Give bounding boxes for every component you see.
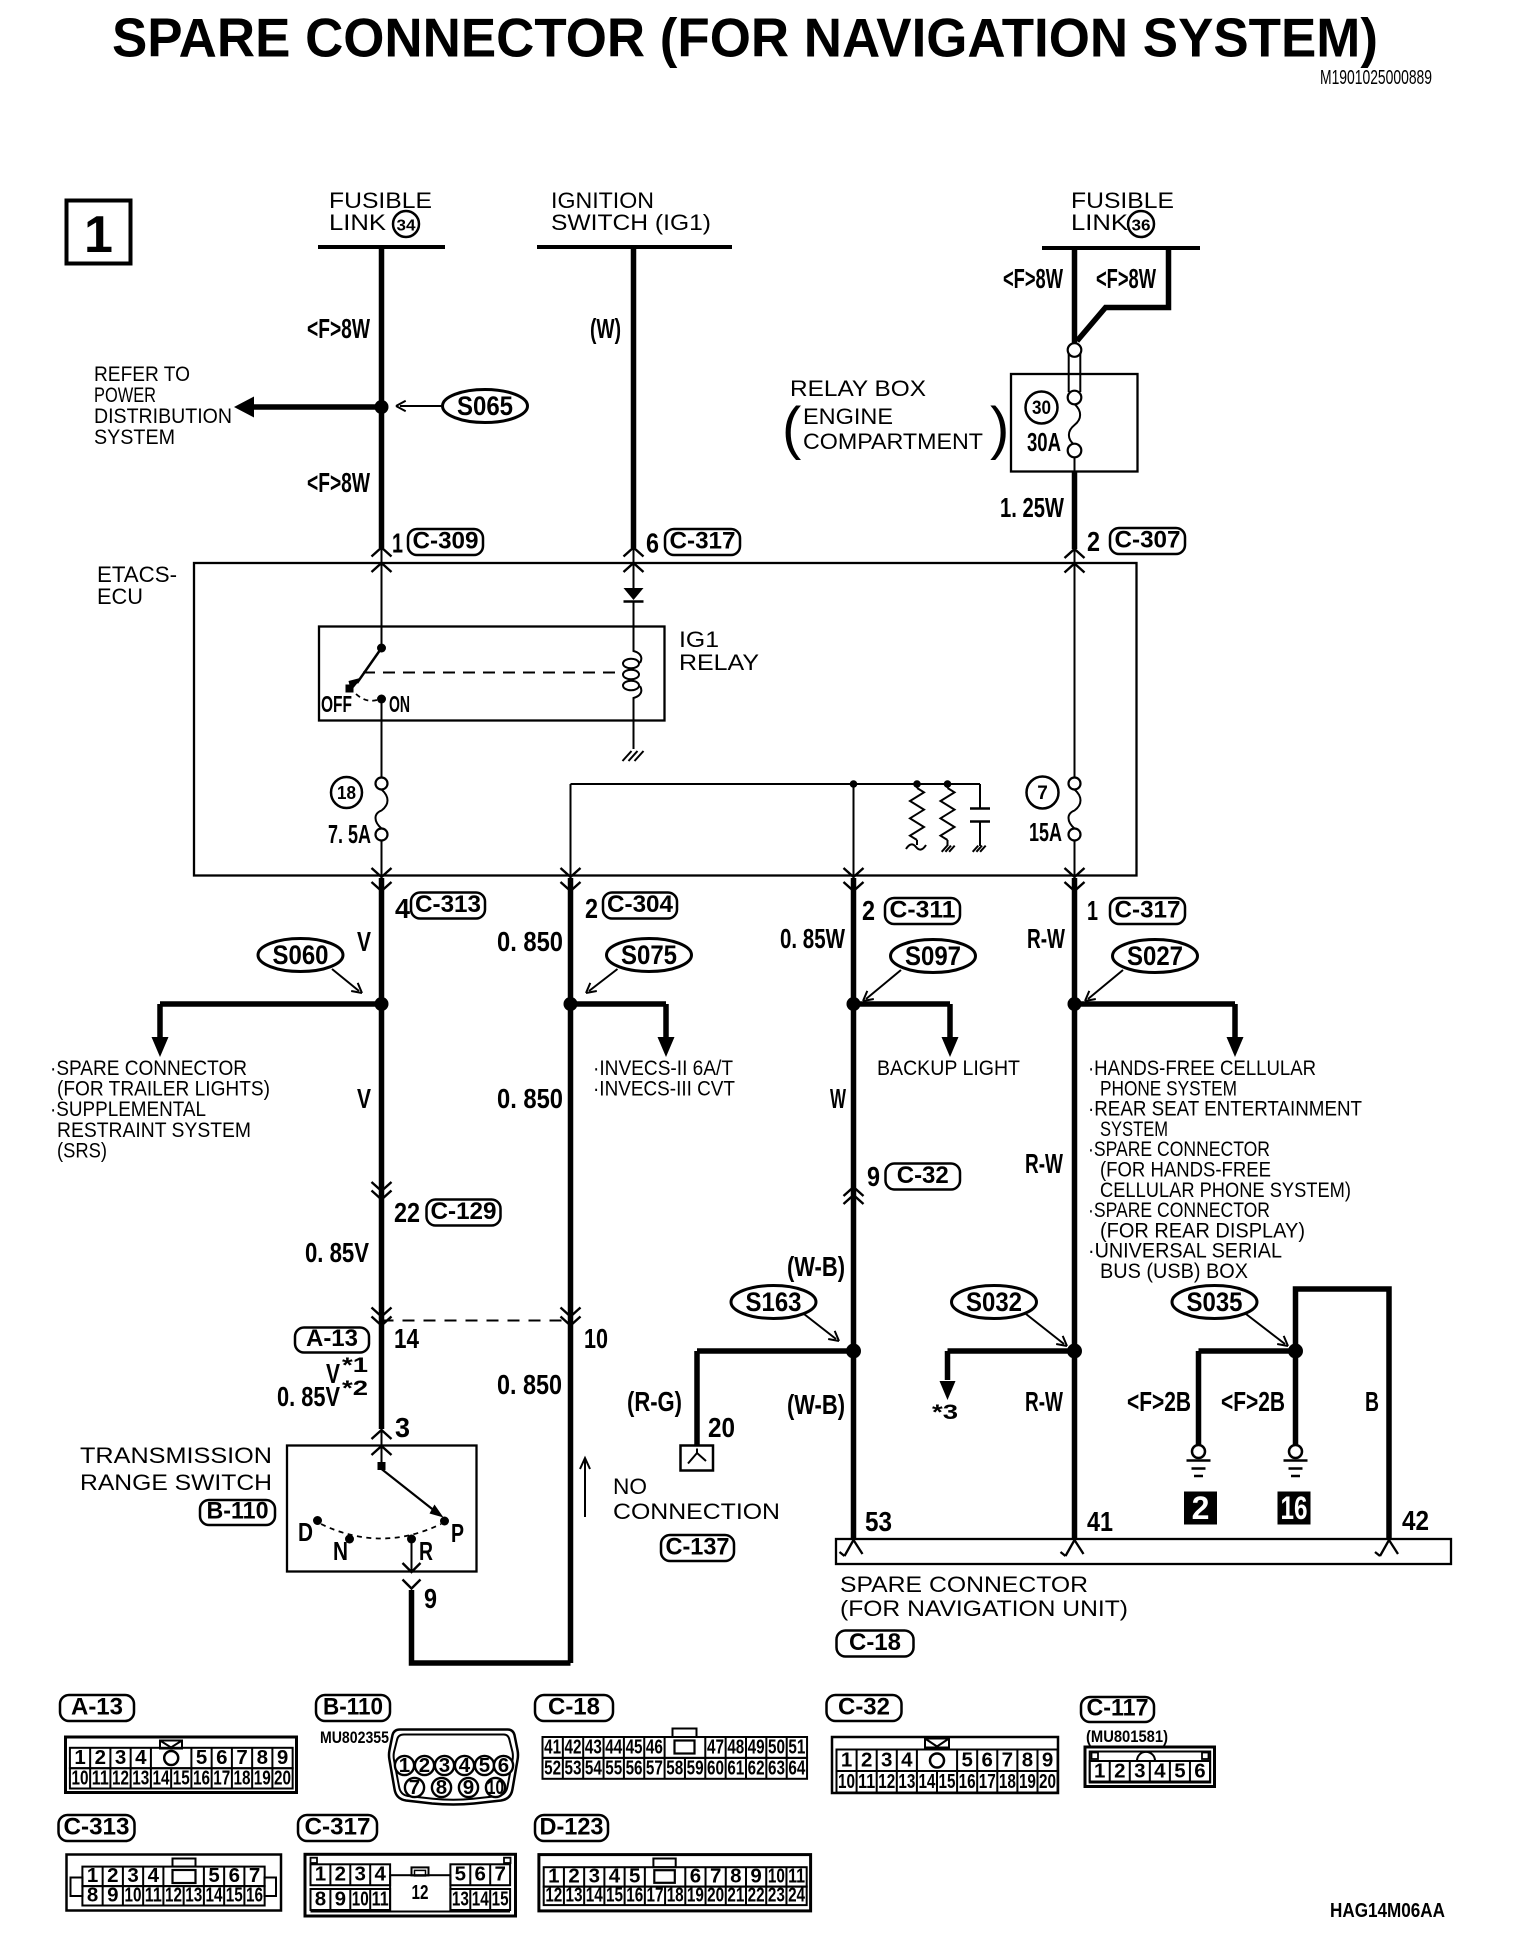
svg-text:BUS (USB) BOX: BUS (USB) BOX xyxy=(1100,1260,1248,1283)
svg-text:41: 41 xyxy=(544,1736,561,1759)
svg-text:R-W: R-W xyxy=(1027,923,1065,954)
resistor 2 xyxy=(944,780,952,788)
svg-text:RELAY: RELAY xyxy=(679,650,759,675)
svg-text:48: 48 xyxy=(727,1736,744,1759)
svg-text:B-110: B-110 xyxy=(207,1498,269,1525)
figure number 1 box xyxy=(67,201,131,264)
svg-text:14: 14 xyxy=(472,1888,489,1911)
up arrow xyxy=(584,1460,586,1517)
svg-text:12: 12 xyxy=(165,1884,182,1907)
svg-text:RANGE SWITCH: RANGE SWITCH xyxy=(80,1470,272,1495)
svg-text:49: 49 xyxy=(748,1736,765,1759)
connector A-13 pinout xyxy=(60,1695,134,1721)
svg-text:60: 60 xyxy=(707,1757,724,1780)
ignition switch bus bar xyxy=(537,245,732,249)
svg-text:9: 9 xyxy=(107,1884,118,1907)
svg-text:D-123: D-123 xyxy=(540,1814,604,1841)
svg-text:18: 18 xyxy=(234,1767,251,1790)
fuse 18 7.5A xyxy=(376,778,388,790)
svg-text:1. 25W: 1. 25W xyxy=(1000,492,1064,523)
svg-text:13: 13 xyxy=(185,1884,202,1907)
svg-text:D: D xyxy=(298,1517,313,1547)
svg-text:53: 53 xyxy=(565,1757,582,1780)
connector C-313 pinout xyxy=(59,1815,135,1841)
svg-text:30: 30 xyxy=(1032,398,1051,419)
svg-text:12: 12 xyxy=(545,1884,562,1907)
wire R-W down to S032 xyxy=(1072,1004,1078,1351)
svg-text:·SUPPLEMENTAL: ·SUPPLEMENTAL xyxy=(50,1098,206,1121)
relay coil ground xyxy=(623,751,632,761)
svg-text:C-18: C-18 xyxy=(849,1629,901,1656)
svg-text:5: 5 xyxy=(479,1754,490,1777)
svg-text:23: 23 xyxy=(768,1884,785,1907)
connector A-13 crossing xyxy=(372,1308,392,1317)
svg-text:14: 14 xyxy=(394,1323,419,1354)
fusible link 36 bus bar xyxy=(1042,246,1200,250)
svg-text:S075: S075 xyxy=(621,940,677,970)
fuse 30 30A xyxy=(1069,404,1080,445)
svg-text:B: B xyxy=(1365,1386,1379,1417)
svg-text:14: 14 xyxy=(206,1884,223,1907)
svg-text:47: 47 xyxy=(707,1736,724,1759)
svg-text:10: 10 xyxy=(72,1767,89,1790)
svg-text:45: 45 xyxy=(626,1736,643,1759)
splice S027 xyxy=(1113,940,1198,973)
wire IG1 to ETACS pin6 xyxy=(631,247,637,548)
svg-text:V: V xyxy=(357,926,371,957)
svg-text:C-32: C-32 xyxy=(838,1694,890,1721)
svg-text:9: 9 xyxy=(463,1776,474,1799)
svg-text:B-110: B-110 xyxy=(323,1694,383,1721)
ground number 16 xyxy=(1278,1492,1311,1525)
svg-text:1: 1 xyxy=(841,1749,852,1772)
svg-text:C-313: C-313 xyxy=(64,1814,130,1841)
svg-text:A-13: A-13 xyxy=(71,1694,123,1721)
svg-text:6: 6 xyxy=(646,528,659,559)
wire FL34 to ETACS pin1 xyxy=(379,247,385,548)
svg-text:6: 6 xyxy=(982,1749,993,1772)
svg-text:LINK: LINK xyxy=(1071,210,1128,235)
svg-text:V: V xyxy=(357,1083,371,1114)
svg-text:30A: 30A xyxy=(1027,427,1061,457)
svg-text:S065: S065 xyxy=(457,391,513,421)
svg-text:*2: *2 xyxy=(342,1377,368,1400)
svg-text:42: 42 xyxy=(1402,1505,1429,1536)
internal bus line xyxy=(571,783,981,785)
svg-text:14: 14 xyxy=(586,1884,603,1907)
arrow to power distribution system xyxy=(248,404,382,410)
svg-text:1: 1 xyxy=(392,528,403,559)
svg-text:4: 4 xyxy=(459,1754,471,1777)
svg-text:(SRS): (SRS) xyxy=(57,1139,107,1162)
svg-text:C-32: C-32 xyxy=(897,1162,949,1189)
diode xyxy=(624,588,644,600)
svg-text:10: 10 xyxy=(584,1323,608,1354)
svg-text:SPARE CONNECTOR (FOR NAVIGATIO: SPARE CONNECTOR (FOR NAVIGATION SYSTEM) xyxy=(112,7,1378,69)
svg-text:(W): (W) xyxy=(590,313,621,344)
svg-text:64: 64 xyxy=(788,1757,805,1780)
svg-text:C-129: C-129 xyxy=(431,1198,497,1225)
svg-text:12: 12 xyxy=(878,1770,895,1793)
svg-text:15: 15 xyxy=(492,1888,509,1911)
svg-text:*1: *1 xyxy=(342,1354,368,1377)
svg-text:19: 19 xyxy=(254,1767,271,1790)
contact N xyxy=(345,1535,354,1544)
svg-text:12: 12 xyxy=(412,1881,429,1904)
svg-text:61: 61 xyxy=(727,1757,744,1780)
relay coil xyxy=(634,601,642,663)
svg-text:R: R xyxy=(419,1536,433,1566)
connector D-123 pinout xyxy=(535,1815,608,1841)
svg-text:P: P xyxy=(451,1518,464,1548)
svg-text:16: 16 xyxy=(246,1884,263,1907)
svg-text:53: 53 xyxy=(865,1506,892,1537)
relay contact dashed link xyxy=(363,672,622,674)
svg-text:13: 13 xyxy=(452,1888,469,1911)
pin 6 C-317 xyxy=(624,548,644,557)
svg-text:11: 11 xyxy=(92,1767,109,1790)
ETACS-ECU box xyxy=(194,563,1137,876)
contact dashed arc xyxy=(321,1524,441,1539)
svg-text:5: 5 xyxy=(961,1749,972,1772)
svg-text:SYSTEM: SYSTEM xyxy=(94,426,175,449)
svg-text:S097: S097 xyxy=(905,941,961,971)
svg-text:<F>8W: <F>8W xyxy=(307,467,370,498)
svg-text:34: 34 xyxy=(397,218,416,235)
svg-text:<F>2B: <F>2B xyxy=(1221,1386,1285,1417)
svg-text:(MU801581): (MU801581) xyxy=(1086,1727,1168,1746)
circled 36 xyxy=(1128,211,1154,237)
svg-text:CONNECTION: CONNECTION xyxy=(613,1499,780,1524)
svg-text:3: 3 xyxy=(355,1863,366,1886)
wire from contact R to pin 9 xyxy=(411,1543,413,1572)
wire W down to S163 xyxy=(851,1004,857,1351)
svg-text:0. 85V: 0. 85V xyxy=(277,1381,340,1412)
svg-text:7: 7 xyxy=(494,1863,505,1886)
wire FL36 left branch xyxy=(1072,248,1078,344)
svg-text:2: 2 xyxy=(1192,1490,1210,1526)
svg-text:10: 10 xyxy=(352,1888,369,1911)
svg-text:R-W: R-W xyxy=(1025,1386,1063,1417)
svg-text:<F>8W: <F>8W xyxy=(1096,263,1156,294)
ground number 2 xyxy=(1184,1492,1217,1525)
svg-text:TRANSMISSION: TRANSMISSION xyxy=(80,1443,272,1468)
ground 16 xyxy=(1289,1445,1302,1458)
svg-text:2: 2 xyxy=(335,1863,346,1886)
contact P xyxy=(440,1517,449,1526)
svg-text:): ) xyxy=(990,396,1009,461)
svg-text:C-18: C-18 xyxy=(548,1694,600,1721)
svg-text:20: 20 xyxy=(1039,1770,1056,1793)
svg-text:DISTRIBUTION: DISTRIBUTION xyxy=(94,405,232,428)
svg-text:·INVECS-II 6A/T: ·INVECS-II 6A/T xyxy=(593,1057,733,1080)
svg-text:(FOR TRAILER LIGHTS): (FOR TRAILER LIGHTS) xyxy=(57,1078,270,1101)
circled 34 xyxy=(393,211,419,237)
svg-text:17: 17 xyxy=(979,1770,996,1793)
svg-text:62: 62 xyxy=(748,1757,765,1780)
svg-text:1: 1 xyxy=(84,206,113,264)
svg-text:2: 2 xyxy=(862,895,875,926)
svg-text:C-307: C-307 xyxy=(1115,527,1181,554)
svg-text:1: 1 xyxy=(399,1754,410,1777)
svg-text:4: 4 xyxy=(1154,1760,1166,1783)
svg-text:(W-B): (W-B) xyxy=(787,1389,845,1420)
svg-text:9: 9 xyxy=(1042,1749,1053,1772)
svg-text:SPARE CONNECTOR: SPARE CONNECTOR xyxy=(840,1572,1088,1597)
svg-text:2: 2 xyxy=(585,893,598,924)
svg-text:20: 20 xyxy=(707,1884,724,1907)
svg-text:13: 13 xyxy=(132,1767,149,1790)
svg-text:A-13: A-13 xyxy=(306,1325,358,1352)
splice S075 xyxy=(607,939,692,972)
svg-text:MU802355: MU802355 xyxy=(320,1728,389,1747)
resistor 1 xyxy=(913,780,921,788)
splice S060 xyxy=(258,939,343,972)
connector C-18 pinout xyxy=(535,1695,613,1721)
svg-text:13: 13 xyxy=(566,1884,583,1907)
svg-text:18: 18 xyxy=(667,1884,684,1907)
svg-text:COMPARTMENT: COMPARTMENT xyxy=(803,429,983,454)
svg-text:18: 18 xyxy=(999,1770,1016,1793)
svg-text:36: 36 xyxy=(1132,218,1151,235)
svg-text:<F>8W: <F>8W xyxy=(307,313,370,344)
splice S065 xyxy=(375,400,389,414)
svg-text:8: 8 xyxy=(1022,1749,1033,1772)
svg-text:11: 11 xyxy=(145,1884,162,1907)
splice S032 xyxy=(952,1286,1037,1319)
svg-text:1: 1 xyxy=(1094,1760,1105,1783)
svg-text:14: 14 xyxy=(153,1767,170,1790)
pin 2 C-307 xyxy=(1065,549,1085,558)
branch to hands-free etc xyxy=(1075,1001,1236,1007)
fusible link element xyxy=(1068,352,1070,392)
svg-text:S027: S027 xyxy=(1127,941,1183,971)
svg-text:ECU: ECU xyxy=(97,584,143,609)
svg-text:12: 12 xyxy=(112,1767,129,1790)
svg-text:41: 41 xyxy=(1087,1506,1113,1537)
svg-text:S032: S032 xyxy=(966,1287,1022,1317)
svg-text:46: 46 xyxy=(646,1736,663,1759)
svg-text:0. 85W: 0. 85W xyxy=(780,923,845,954)
svg-text:15: 15 xyxy=(939,1770,956,1793)
wire FL36 right branch xyxy=(1077,248,1169,341)
connector C-117 pinout xyxy=(1081,1697,1154,1722)
svg-text:LINK: LINK xyxy=(329,210,386,235)
pin 1 C-309 xyxy=(372,548,392,557)
svg-text:3: 3 xyxy=(439,1754,450,1777)
ground 2 xyxy=(1192,1445,1205,1458)
wire B U-shape to pin 42 xyxy=(1296,1289,1390,1539)
svg-text:C-311: C-311 xyxy=(890,897,956,924)
svg-text:15: 15 xyxy=(606,1884,623,1907)
relay switch OFF/ON xyxy=(377,644,386,653)
svg-text:R-W: R-W xyxy=(1025,1148,1063,1179)
ground branch wires xyxy=(1199,1348,1296,1354)
svg-text:0. 850: 0. 850 xyxy=(497,1369,562,1400)
svg-text:6: 6 xyxy=(1194,1760,1205,1783)
node on bus 1 xyxy=(850,780,858,788)
contact D xyxy=(313,1516,322,1525)
svg-text:19: 19 xyxy=(1019,1770,1036,1793)
svg-text:SWITCH (IG1): SWITCH (IG1) xyxy=(551,210,711,235)
svg-text:1: 1 xyxy=(315,1863,326,1886)
ETACS output crossing xyxy=(372,868,392,877)
svg-text:(W-B): (W-B) xyxy=(787,1251,845,1282)
svg-text:C-137: C-137 xyxy=(666,1534,730,1561)
svg-text:7: 7 xyxy=(1037,783,1048,804)
svg-text:ENGINE: ENGINE xyxy=(803,404,893,429)
svg-text:6: 6 xyxy=(498,1754,509,1777)
svg-text:14: 14 xyxy=(918,1770,935,1793)
svg-text:44: 44 xyxy=(605,1736,622,1759)
crossing 22 C-129 xyxy=(372,1182,392,1191)
TRS common contact xyxy=(378,1462,386,1470)
svg-text:11: 11 xyxy=(372,1888,389,1911)
svg-text:9: 9 xyxy=(335,1888,346,1911)
wire V down to TRS xyxy=(379,1004,385,1429)
contact R xyxy=(407,1535,416,1544)
svg-text:63: 63 xyxy=(768,1757,785,1780)
svg-text:4: 4 xyxy=(395,893,410,924)
wire 0.85W etacs to S097 xyxy=(851,878,857,1004)
svg-text:57: 57 xyxy=(646,1757,663,1780)
svg-text:2: 2 xyxy=(419,1754,430,1777)
svg-text:15: 15 xyxy=(173,1767,190,1790)
branch W-B to no connection xyxy=(697,1348,854,1354)
ETACS output crossing xyxy=(1065,868,1085,877)
svg-text:HAG14M06AA: HAG14M06AA xyxy=(1330,1900,1445,1922)
svg-text:20: 20 xyxy=(274,1767,291,1790)
svg-text:16: 16 xyxy=(959,1770,976,1793)
wire R-W etacs to S027 xyxy=(1072,878,1078,1004)
svg-text:5: 5 xyxy=(455,1863,466,1886)
branch *3 xyxy=(948,1348,1075,1354)
svg-text:POWER: POWER xyxy=(94,384,156,407)
svg-text:16: 16 xyxy=(626,1884,643,1907)
svg-text:·INVECS-III CVT: ·INVECS-III CVT xyxy=(593,1078,735,1101)
svg-text:24: 24 xyxy=(788,1884,805,1907)
svg-text:<F>8W: <F>8W xyxy=(1003,263,1063,294)
svg-text:17: 17 xyxy=(646,1884,663,1907)
svg-text:ON: ON xyxy=(389,691,410,717)
svg-text:RESTRAINT SYSTEM: RESTRAINT SYSTEM xyxy=(57,1119,251,1142)
svg-text:0. 850: 0. 850 xyxy=(497,926,563,957)
fusible link 34 bus bar xyxy=(318,245,445,249)
branch to INVECS xyxy=(571,1001,667,1007)
svg-text:W: W xyxy=(830,1083,846,1114)
wire W-B to pin 53 xyxy=(851,1351,857,1539)
wire V etacs to S060 xyxy=(379,878,385,1004)
svg-text:7: 7 xyxy=(1002,1749,1013,1772)
svg-text:19: 19 xyxy=(687,1884,704,1907)
svg-text:22: 22 xyxy=(748,1884,765,1907)
svg-text:22: 22 xyxy=(394,1197,420,1228)
fuse 7 15A xyxy=(1069,778,1081,790)
svg-text:C-317: C-317 xyxy=(305,1814,371,1841)
svg-text:59: 59 xyxy=(687,1757,704,1780)
svg-text:RELAY BOX: RELAY BOX xyxy=(790,376,926,401)
TRS selector blade xyxy=(382,1469,437,1512)
svg-text:43: 43 xyxy=(585,1736,602,1759)
svg-text:56: 56 xyxy=(626,1757,643,1780)
svg-text:55: 55 xyxy=(605,1757,622,1780)
svg-text:C-313: C-313 xyxy=(415,891,481,918)
svg-text:6: 6 xyxy=(475,1863,486,1886)
svg-text:5: 5 xyxy=(1174,1760,1185,1783)
wire into TRS pin 3 xyxy=(372,1430,392,1439)
svg-text:IG1: IG1 xyxy=(679,627,719,652)
ETACS output crossing xyxy=(561,868,581,877)
connector B-110 pinout xyxy=(316,1695,390,1721)
svg-text:C-317: C-317 xyxy=(1115,897,1181,924)
wire 0.850 down xyxy=(568,1004,574,1663)
svg-text:N: N xyxy=(333,1536,348,1566)
svg-text:8: 8 xyxy=(436,1776,447,1799)
no connection box C-137 xyxy=(681,1446,714,1471)
wire 0.850 etacs to S075 xyxy=(568,878,574,1004)
svg-text:10: 10 xyxy=(838,1770,855,1793)
svg-text:<F>2B: <F>2B xyxy=(1127,1386,1191,1417)
wire relay box to ETACS pin2 xyxy=(1074,457,1076,471)
svg-text:8: 8 xyxy=(315,1888,326,1911)
svg-text:54: 54 xyxy=(585,1757,602,1780)
svg-text:17: 17 xyxy=(213,1767,230,1790)
svg-text:13: 13 xyxy=(898,1770,915,1793)
svg-text:8: 8 xyxy=(87,1884,98,1907)
svg-text:BACKUP LIGHT: BACKUP LIGHT xyxy=(877,1057,1020,1080)
svg-text:C-117: C-117 xyxy=(1087,1695,1149,1722)
svg-text:REFER TO: REFER TO xyxy=(94,363,190,386)
svg-text:18: 18 xyxy=(337,783,356,803)
svg-text:21: 21 xyxy=(727,1884,744,1907)
svg-text:C-304: C-304 xyxy=(607,891,674,918)
svg-text:1: 1 xyxy=(1087,895,1098,926)
svg-text:16: 16 xyxy=(1281,1490,1308,1526)
svg-text:10: 10 xyxy=(125,1884,142,1907)
ETACS output crossing xyxy=(844,868,864,877)
transmission range switch box xyxy=(287,1446,477,1572)
svg-text:7. 5A: 7. 5A xyxy=(328,819,371,849)
svg-text:S035: S035 xyxy=(1187,1287,1243,1317)
svg-text:4: 4 xyxy=(901,1749,913,1772)
svg-text:C-309: C-309 xyxy=(413,528,479,555)
svg-text:·SPARE CONNECTOR: ·SPARE CONNECTOR xyxy=(50,1057,247,1080)
splice S163 xyxy=(731,1286,816,1319)
splice S097 xyxy=(891,940,976,973)
svg-text:C-317: C-317 xyxy=(670,528,736,555)
svg-text:*3: *3 xyxy=(932,1401,958,1424)
svg-text:11: 11 xyxy=(858,1770,875,1793)
svg-text:51: 51 xyxy=(788,1736,805,1759)
svg-text:0. 850: 0. 850 xyxy=(497,1083,563,1114)
svg-text:2: 2 xyxy=(1087,526,1100,557)
svg-text:S163: S163 xyxy=(746,1287,802,1317)
svg-text:2: 2 xyxy=(861,1749,872,1772)
svg-text:7: 7 xyxy=(409,1776,420,1799)
svg-text:0. 85V: 0. 85V xyxy=(305,1237,369,1268)
connector C-32 pinout xyxy=(827,1695,902,1721)
svg-text:2: 2 xyxy=(1114,1760,1125,1783)
wire R-W to pin 41 xyxy=(1072,1351,1078,1539)
svg-text:3: 3 xyxy=(1134,1760,1145,1783)
svg-text:42: 42 xyxy=(565,1736,582,1759)
svg-text:9: 9 xyxy=(867,1161,880,1192)
branch to trailer lights xyxy=(160,1001,382,1007)
svg-text:(: ( xyxy=(782,396,801,461)
svg-text:M1901025000889: M1901025000889 xyxy=(1320,67,1432,89)
svg-text:4: 4 xyxy=(374,1863,386,1886)
crossing 9 C-32 xyxy=(844,1187,864,1196)
